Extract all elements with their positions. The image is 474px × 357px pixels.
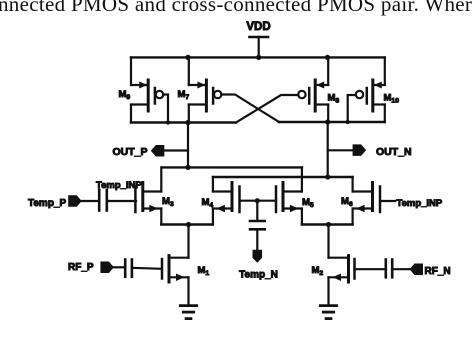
svg-text:Temp_INP: Temp_INP [397,198,443,209]
svg-text:M7: M7 [178,89,190,101]
svg-text:M2: M2 [312,265,324,277]
svg-text:M6: M6 [341,196,353,208]
svg-text:Temp_P: Temp_P [28,198,66,209]
svg-text:OUT_P: OUT_P [112,146,147,158]
svg-text:M4: M4 [202,197,214,209]
svg-text:M10: M10 [384,93,400,105]
svg-text:M5: M5 [302,197,314,209]
svg-text:OUT_N: OUT_N [376,146,412,158]
svg-text:Temp_N: Temp_N [239,270,278,281]
svg-text:VDD: VDD [246,21,270,33]
svg-text:M8: M8 [328,93,340,105]
svg-text:M3: M3 [162,196,174,208]
svg-text:M9: M9 [119,89,131,101]
svg-text:RF_P: RF_P [68,262,94,273]
svg-text:Temp_INP: Temp_INP [96,180,142,191]
svg-text:M1: M1 [198,265,210,277]
svg-text:RF_N: RF_N [425,266,451,277]
